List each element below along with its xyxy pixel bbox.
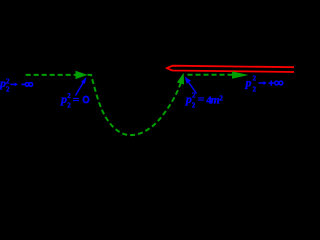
svg-text:p: p — [60, 92, 67, 106]
svg-text:p: p — [245, 76, 252, 90]
wire: green dashed contour, left horizontal segment — [23, 74, 76, 76]
label p2^2 -> -infinity — [0, 76, 33, 94]
arrowhead toward +infinity — [232, 71, 249, 78]
svg-text:=: = — [73, 93, 80, 107]
svg-text:2: 2 — [67, 102, 71, 110]
svg-text:2: 2 — [6, 86, 10, 94]
svg-text:2: 2 — [6, 77, 10, 85]
label p2^2 = 0 — [60, 92, 89, 110]
annotation arrow to p^2=0 point — [76, 82, 84, 96]
svg-text:2: 2 — [219, 95, 223, 103]
branch cut hairpin (red) — [167, 66, 295, 72]
wire: green dashed valley (dip into lower half plane) — [88, 75, 182, 135]
svg-text:=: = — [198, 92, 205, 106]
label p2^2 -> +infinity — [245, 75, 283, 94]
label p2^2 = 4m^2 — [185, 92, 224, 110]
wire: green dashed segment under the cut — [188, 74, 233, 76]
svg-text:2: 2 — [253, 86, 257, 94]
annotation arrow to p^2=4m^2 point — [188, 82, 197, 94]
svg-text:2: 2 — [67, 92, 71, 100]
arrowhead on left segment — [76, 71, 88, 79]
svg-text:2: 2 — [192, 92, 196, 100]
arrowhead rising to threshold — [177, 73, 184, 85]
svg-text:2: 2 — [253, 75, 257, 83]
svg-text:2: 2 — [192, 101, 196, 109]
